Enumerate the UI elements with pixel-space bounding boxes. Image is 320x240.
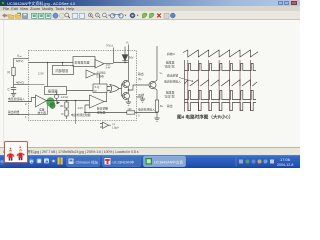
capacitor C timing <box>11 85 16 94</box>
output node wire to pin 6 <box>129 85 150 90</box>
zener diode 36V (filled) <box>122 47 128 63</box>
svg-text:电流检测输入: 电流检测输入 <box>138 108 155 112</box>
tray icons <box>239 160 243 164</box>
junction dots <box>47 62 49 64</box>
svg-text:3.4V: 3.4V <box>106 67 111 70</box>
internal reference block <box>62 63 64 66</box>
pin 8 Vref stub <box>14 58 29 60</box>
pin2 wire to error amp <box>29 98 36 102</box>
svg-text:Vc: Vc <box>126 41 129 45</box>
svg-text:1.0V: 1.0V <box>78 106 84 110</box>
svg-text:输出封锁: 输出封锁 <box>167 74 178 78</box>
quick launch IE icon <box>29 158 34 163</box>
pin 7 Vin lead <box>113 48 115 63</box>
overlay pet window <box>4 141 28 163</box>
svg-text:电压反馈输入: 电压反馈输入 <box>8 97 25 101</box>
sense resistor Rs <box>155 100 158 112</box>
resistor divider 2R <box>66 101 68 103</box>
reset pulse waveform <box>185 91 257 100</box>
top rail wire <box>29 63 129 64</box>
svg-text:Rs: Rs <box>160 104 163 108</box>
timing grid lines (red) <box>188 60 251 111</box>
green highlight mark <box>46 97 54 107</box>
waveform axis <box>184 60 186 112</box>
toolbar <box>0 11 300 20</box>
IC dashed outline U1 <box>29 51 137 121</box>
svg-text:100: 100 <box>128 108 133 111</box>
svg-text:Vref: Vref <box>17 54 22 58</box>
svg-text:17:06: 17:06 <box>280 157 291 162</box>
svg-text:"复位"端: "复位"端 <box>164 95 175 99</box>
tray divider <box>235 157 237 167</box>
svg-text:斜坡发生器: 斜坡发生器 <box>75 60 90 65</box>
pin1 wire to amp output node <box>29 101 48 115</box>
svg-text:C: C <box>8 88 11 92</box>
1mA current source <box>55 95 59 99</box>
100 ohm resistor on sense line <box>127 111 135 114</box>
svg-text:7(Vin): 7(Vin) <box>106 44 113 48</box>
title bar <box>0 0 300 6</box>
canvas with scanned page <box>0 20 300 147</box>
task button 2 <box>103 156 141 166</box>
error amplifier U3 <box>36 95 47 107</box>
driver transistor Q2 <box>123 93 130 100</box>
svg-text:2R: 2R <box>60 104 64 108</box>
current sense ramps <box>185 80 258 86</box>
menu bar <box>0 6 300 11</box>
svg-text:Vo: Vo <box>160 71 164 75</box>
svg-text:R: R <box>95 89 97 93</box>
pin 3 sense line <box>85 112 157 114</box>
svg-text:"置位"端: "置位"端 <box>164 65 175 69</box>
ground for C <box>11 94 16 97</box>
heart speck 1 <box>10 148 12 150</box>
wire error amp to comparator <box>47 100 90 102</box>
svg-text:4(R/C): 4(R/C) <box>16 81 24 85</box>
Vc lead <box>128 45 130 81</box>
svg-text:×1: ×1 <box>112 122 116 126</box>
svg-text:R: R <box>62 112 64 116</box>
scan left edge <box>3 20 5 147</box>
svg-text:UC3842AN中文资: UC3842AN中文资 <box>154 160 183 165</box>
task button 3 (active) <box>144 156 186 166</box>
oscillator to latch wire <box>67 90 94 92</box>
UVLO comparator U2 <box>95 60 104 69</box>
external power transistor Q4 <box>149 82 156 89</box>
svg-text:图4 电路时序图（大R小C）: 图4 电路时序图（大R小C） <box>177 114 233 121</box>
svg-text:2004-12-8: 2004-12-8 <box>277 163 293 167</box>
task button 1 <box>67 156 100 166</box>
1V zener below node <box>75 101 77 125</box>
svg-text:Chinaren 校友: Chinaren 校友 <box>76 160 99 165</box>
svg-text:R: R <box>8 71 11 75</box>
set pulse waveform <box>185 64 257 71</box>
svg-text:(6): (6) <box>138 77 141 81</box>
pin 1 COMP stub <box>8 114 29 116</box>
svg-text:2: 2 <box>25 102 27 106</box>
svg-text:输出: 输出 <box>167 104 173 108</box>
svg-text:3: 3 <box>138 114 140 118</box>
svg-text:36V: 36V <box>129 56 134 60</box>
quick launch icon 3 <box>44 158 49 163</box>
PWM comparator U5 <box>86 70 95 78</box>
pin 4 RT/CT stub <box>14 84 29 86</box>
output square wave <box>185 103 257 111</box>
sawtooth waveform Ct <box>183 50 258 57</box>
status bar <box>0 147 300 155</box>
quick launch icon 2 <box>37 158 42 163</box>
quick launch icon 4 <box>51 158 57 164</box>
NOR gate <box>110 85 119 93</box>
svg-text:1: 1 <box>25 115 27 119</box>
resistor R timing <box>13 59 15 85</box>
svg-text:比较器: 比较器 <box>97 74 105 78</box>
wire to oscillator <box>47 63 49 87</box>
inverter op-amp below box <box>103 122 109 129</box>
taskbar <box>0 155 300 168</box>
resistor divider R <box>66 108 68 110</box>
svg-text:电流检测输入: 电流检测输入 <box>164 80 181 84</box>
oscillator block <box>45 87 67 95</box>
svg-text:输出: 输出 <box>138 72 144 76</box>
ramp generator block <box>73 57 95 67</box>
svg-text:1.2mA: 1.2mA <box>61 95 69 99</box>
comparator plus input from sense line <box>85 105 90 113</box>
pet figure 2 <box>19 149 23 150</box>
external V+ line <box>156 46 158 100</box>
arrow marker right of green <box>57 101 61 104</box>
pin 2 VFB stub <box>8 101 29 103</box>
base feed <box>122 84 125 96</box>
pet figure 1 <box>9 150 13 151</box>
PWM latch <box>93 84 107 93</box>
pin 5 ground stub <box>137 97 146 102</box>
driver transistor Q1 <box>123 81 130 88</box>
svg-text:8(5V): 8(5V) <box>16 59 23 63</box>
svg-text:内部基准: 内部基准 <box>56 68 70 73</box>
svg-text:输出补偿: 输出补偿 <box>8 110 19 114</box>
svg-text:斜坡Ct: 斜坡Ct <box>167 52 176 56</box>
timing diagram <box>164 50 258 121</box>
current sense comparator U4 <box>90 95 105 108</box>
svg-text:2.5V: 2.5V <box>38 72 44 76</box>
comparator out to latch <box>104 93 107 102</box>
svg-text:UC3842AN中: UC3842AN中 <box>113 160 135 165</box>
svg-text:(5)地: (5)地 <box>138 93 144 97</box>
heart speck 2 <box>19 146 21 148</box>
Q2 emitter ground <box>126 102 131 105</box>
svg-text:1.5μA: 1.5μA <box>112 126 119 130</box>
yellow icon <box>58 158 60 165</box>
start orb remnant <box>0 159 6 166</box>
svg-text:电流检测比较器: 电流检测比较器 <box>71 113 91 117</box>
